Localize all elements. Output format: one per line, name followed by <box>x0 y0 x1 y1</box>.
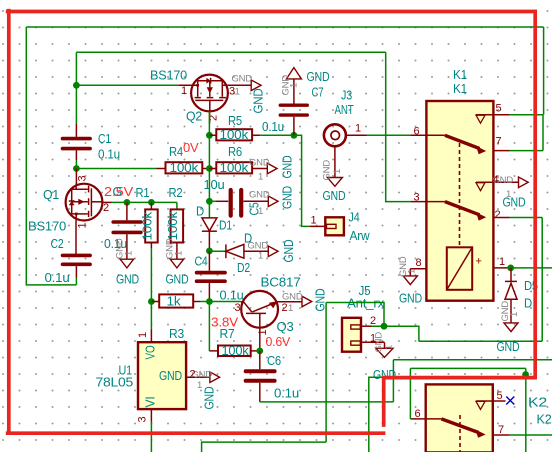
label Q1 pins <box>77 176 110 229</box>
label C7 <box>262 86 324 135</box>
svg-text:K2: K2 <box>537 413 552 427</box>
svg-text:2: 2 <box>495 209 501 221</box>
wire bottom center vertical <box>369 377 382 452</box>
label R2 <box>169 186 183 200</box>
svg-text:1: 1 <box>258 251 263 262</box>
K1 switch arm 1 <box>445 135 486 154</box>
svg-text:5: 5 <box>497 390 503 402</box>
power GND at C3 <box>115 238 140 286</box>
label J5 pins <box>370 315 376 345</box>
wire top net right vertical <box>543 27 545 115</box>
svg-text:GND: GND <box>503 196 526 210</box>
svg-text:R6: R6 <box>228 145 242 159</box>
label R7 <box>220 327 235 341</box>
svg-text:5: 5 <box>496 103 502 115</box>
svg-text:100k: 100k <box>222 344 250 358</box>
K1 pin 6 <box>410 126 445 138</box>
svg-text:GND: GND <box>232 74 253 85</box>
label C2 <box>45 237 70 285</box>
label J4 <box>311 211 371 244</box>
label C1 <box>98 132 120 162</box>
svg-text:Q2: Q2 <box>186 110 202 124</box>
connector J4 <box>310 217 344 235</box>
svg-text:1: 1 <box>174 251 185 256</box>
svg-text:GND: GND <box>322 160 333 181</box>
svg-text:1: 1 <box>355 123 361 135</box>
K1 pin 3 <box>410 192 445 204</box>
label 2.5V <box>104 185 134 199</box>
svg-text:GND: GND <box>159 369 182 383</box>
power GND at J5 pin1 <box>373 332 396 382</box>
svg-text:10u: 10u <box>204 178 225 192</box>
K2 pin 5 no-connect <box>476 390 514 409</box>
capacitor C1 <box>63 139 91 149</box>
svg-text:GND: GND <box>249 158 270 169</box>
wire K1 pin2 down <box>510 218 543 342</box>
svg-text:C7: C7 <box>312 86 324 100</box>
svg-text:C6: C6 <box>267 354 281 368</box>
svg-text:0.1u: 0.1u <box>274 387 299 401</box>
svg-text:3: 3 <box>77 176 89 182</box>
svg-text:1: 1 <box>407 269 418 274</box>
label D2 <box>237 232 252 276</box>
junction A <box>73 82 80 89</box>
svg-text:GND: GND <box>252 88 266 113</box>
U1 pin 2 GND <box>186 369 220 410</box>
svg-text:R1: R1 <box>136 186 150 200</box>
red border bottom <box>6 431 386 435</box>
power GND at J3 <box>322 146 346 203</box>
svg-text:BC817: BC817 <box>261 276 301 290</box>
K1 coil <box>447 247 482 289</box>
wire Q1 drain <box>112 202 177 209</box>
capacitor C5 <box>209 190 268 216</box>
junction M <box>507 265 514 272</box>
svg-text:BS170: BS170 <box>150 69 187 83</box>
label Q3 <box>261 276 301 335</box>
label R1 <box>136 186 150 200</box>
capacitor C6 <box>246 351 275 402</box>
svg-text:0.1u: 0.1u <box>262 120 284 134</box>
label GND bottom right <box>497 340 520 354</box>
svg-text:K1: K1 <box>453 82 467 96</box>
svg-text:J4: J4 <box>349 211 360 225</box>
transistor Q1 <box>66 169 112 256</box>
resistor R6 <box>209 161 267 175</box>
svg-text:6: 6 <box>415 408 421 420</box>
junction N <box>522 371 529 378</box>
wire Q2 gate <box>76 84 178 86</box>
wire K1 pin1 right <box>510 267 552 269</box>
resistor R5 <box>209 128 260 142</box>
wire K1 pin5-pin7 <box>510 115 543 151</box>
power GND at Q3 collector <box>282 292 312 315</box>
svg-text:8: 8 <box>416 257 422 269</box>
svg-text:1k: 1k <box>167 295 182 309</box>
capacitor C4 <box>197 251 225 301</box>
capacitor C3 <box>113 202 141 259</box>
label C6 <box>267 354 299 401</box>
junction L <box>381 323 388 330</box>
wire top long net <box>26 26 543 28</box>
svg-text:0.1u: 0.1u <box>220 289 244 303</box>
svg-text:0.1u: 0.1u <box>98 148 120 162</box>
svg-text:3: 3 <box>235 302 241 314</box>
svg-text:C1: C1 <box>98 132 111 146</box>
svg-text:GND: GND <box>399 292 422 306</box>
svg-text:1: 1 <box>288 303 293 314</box>
svg-text:1: 1 <box>137 332 149 338</box>
junction D <box>206 165 213 172</box>
label GND vertical right of D2 <box>282 239 296 262</box>
svg-text:R5: R5 <box>228 114 242 128</box>
label R3 <box>169 327 184 341</box>
power GND at R2 <box>165 238 189 286</box>
svg-text:R7: R7 <box>220 327 235 341</box>
svg-text:0V: 0V <box>183 141 199 155</box>
svg-text:2: 2 <box>282 302 288 314</box>
red notch vertical <box>382 376 386 427</box>
U1 pin 3 <box>137 409 152 422</box>
resistor R1 <box>141 202 158 248</box>
svg-text:Q1: Q1 <box>43 188 59 202</box>
junction H <box>148 199 155 206</box>
svg-text:R3: R3 <box>169 327 184 341</box>
wire node to U1 pin1 <box>150 302 152 330</box>
svg-text:100k: 100k <box>220 128 250 142</box>
wire R1 to node <box>150 248 152 302</box>
svg-text:GND: GND <box>282 292 303 303</box>
wire U1 pin3 down <box>150 422 152 452</box>
label Q2 <box>150 69 202 124</box>
wire J5 pin2 to K1 pin2 net <box>384 326 542 341</box>
IC U1 regulator <box>138 342 186 409</box>
junction C7 <box>291 132 298 139</box>
wire R5 to C7 <box>260 134 294 136</box>
wire node to Q3 base <box>200 301 241 303</box>
svg-text:GND: GND <box>166 273 189 287</box>
wire K2 pin6 net <box>410 368 525 419</box>
svg-text:GND: GND <box>497 340 520 354</box>
svg-text:D1: D1 <box>219 219 232 233</box>
K1 dashed link <box>459 143 461 247</box>
resistor R4 <box>157 161 210 175</box>
power GND at R6 <box>249 158 277 183</box>
svg-text:1: 1 <box>77 223 89 229</box>
svg-text:GND: GND <box>314 288 328 311</box>
junction I <box>148 298 155 305</box>
svg-text:ANT: ANT <box>335 103 354 117</box>
label 10u <box>204 178 225 192</box>
svg-text:GND: GND <box>307 70 330 84</box>
wire GND net to J5 pin2 <box>326 303 384 443</box>
svg-text:6: 6 <box>414 126 420 138</box>
resistor R7 <box>209 344 259 358</box>
wire C6 bottom <box>260 360 552 402</box>
svg-text:C4: C4 <box>195 255 208 269</box>
wire Q3 net down to R7 <box>208 302 210 351</box>
relay K2 <box>426 384 493 452</box>
svg-text:100k: 100k <box>170 161 200 175</box>
K2 switch arm <box>441 419 485 438</box>
svg-text:0.6V: 0.6V <box>266 335 291 349</box>
svg-text:VO: VO <box>144 345 158 359</box>
capacitor C7 <box>280 105 307 135</box>
connector J5 <box>342 318 385 352</box>
wire second horizontal y52 to K1 pin3 <box>76 52 410 201</box>
svg-text:K1: K1 <box>453 68 467 82</box>
svg-text:2: 2 <box>370 315 376 327</box>
svg-text:100k: 100k <box>141 211 155 241</box>
K2 pin 6 <box>410 408 441 420</box>
svg-text:Ant_rx: Ant_rx <box>347 297 385 311</box>
svg-text:GND: GND <box>249 190 270 201</box>
svg-text:R2: R2 <box>169 186 183 200</box>
wire C1 top <box>75 52 77 137</box>
power GND above C7 <box>281 68 330 104</box>
K1 switch arm 2 <box>445 202 486 221</box>
svg-text:GND: GND <box>281 155 295 178</box>
svg-text:2: 2 <box>103 202 109 214</box>
label R4 <box>169 145 183 159</box>
svg-text:100k: 100k <box>220 161 250 175</box>
svg-text:K2: K2 <box>528 396 547 410</box>
label 0V <box>183 141 199 155</box>
svg-text:7: 7 <box>496 136 502 148</box>
svg-text:1: 1 <box>311 215 317 227</box>
wire K2 pin7 right <box>510 434 552 436</box>
label J3 <box>335 89 362 135</box>
wire C7 to J4 <box>294 135 310 226</box>
diode D5 <box>505 268 517 323</box>
wire J3 to K1 pin6 <box>367 134 411 136</box>
svg-text:1: 1 <box>499 256 505 268</box>
svg-text:100k: 100k <box>166 211 180 241</box>
svg-text:R4: R4 <box>169 145 183 159</box>
capacitor C2 <box>63 255 91 277</box>
svg-text:GND: GND <box>323 189 346 203</box>
svg-text:1: 1 <box>384 345 395 350</box>
wire Q2 net vertical <box>208 135 210 201</box>
junction G <box>124 199 131 206</box>
svg-text:D: D <box>524 297 532 311</box>
resistor R3 1k <box>151 294 200 308</box>
svg-text:1: 1 <box>235 87 240 98</box>
svg-text:7: 7 <box>498 424 504 436</box>
red border left <box>7 9 11 435</box>
label R6 <box>228 145 242 159</box>
power GND at Q2 drain <box>232 74 266 114</box>
power GND at C5 <box>248 190 279 218</box>
K1 pin 7 <box>493 136 509 151</box>
wire C1 bottom to R4/Q1 <box>76 150 156 168</box>
label D1 <box>196 205 232 233</box>
label C4 <box>195 255 244 303</box>
K1 pin 8 GND <box>398 256 426 305</box>
diode D2 <box>209 244 268 258</box>
svg-text:2.5V: 2.5V <box>104 185 134 199</box>
svg-text:+: + <box>476 256 482 268</box>
svg-text:78L05: 78L05 <box>96 376 134 390</box>
red border top <box>6 10 537 14</box>
svg-text:1: 1 <box>509 312 520 317</box>
label R5 <box>228 114 242 128</box>
label 0.6V <box>266 335 291 349</box>
label Q3 pins <box>235 302 288 336</box>
label C3 value <box>104 237 127 251</box>
K2 pin 7 <box>493 424 510 436</box>
svg-text:Q3: Q3 <box>277 320 294 334</box>
transistor Q2 <box>178 75 251 124</box>
resistor R2 <box>166 209 183 259</box>
svg-text:GND: GND <box>281 186 295 209</box>
junction E <box>206 198 213 205</box>
red border right <box>533 10 537 380</box>
red notch horizontal <box>382 376 537 380</box>
svg-text:2: 2 <box>190 369 196 381</box>
svg-text:VI: VI <box>144 397 158 408</box>
U1 pin 1 <box>137 330 152 343</box>
power GND at D5 <box>500 301 520 332</box>
svg-text:Arw: Arw <box>350 229 371 243</box>
relay K1 <box>426 101 493 301</box>
K1 pin 2 <box>493 209 509 221</box>
K2 dashed link <box>459 415 461 452</box>
svg-text:GND: GND <box>282 239 296 262</box>
svg-text:0.1u: 0.1u <box>45 271 70 285</box>
label Q2 pins <box>181 85 235 121</box>
K1 pin 5 <box>476 103 510 124</box>
svg-text:1: 1 <box>181 85 187 97</box>
junction C <box>206 132 213 139</box>
svg-text:1: 1 <box>124 251 135 256</box>
K1 pin 4 GND <box>476 174 528 210</box>
diode D1 <box>202 201 217 251</box>
svg-text:GND: GND <box>116 273 139 287</box>
connector J3 ANT <box>324 124 367 146</box>
label D5 <box>524 279 538 311</box>
K1 pin 1 <box>493 256 509 268</box>
label K2 <box>528 396 552 427</box>
junction F <box>206 248 213 255</box>
power GND at D2 <box>248 241 279 262</box>
svg-text:C5: C5 <box>248 202 262 215</box>
svg-text:3: 3 <box>137 417 149 423</box>
svg-text:GND: GND <box>500 301 511 322</box>
wire Q2 source down <box>208 111 210 135</box>
label 3.8V <box>211 316 239 330</box>
svg-text:BS170: BS170 <box>28 220 66 234</box>
svg-text:GND: GND <box>203 386 217 409</box>
wire right bottom vertical <box>525 368 527 452</box>
label Q1 <box>28 188 66 234</box>
svg-text:1: 1 <box>197 380 202 391</box>
svg-text:4: 4 <box>493 174 499 186</box>
label GND vertical pair right <box>281 155 295 209</box>
label K1 <box>453 68 467 96</box>
svg-text:J3: J3 <box>341 89 352 103</box>
label GND vertical at Q3 right <box>314 288 328 311</box>
junction J <box>206 298 213 305</box>
label U1 <box>96 364 134 390</box>
svg-text:C2: C2 <box>51 237 64 251</box>
svg-text:D2: D2 <box>237 261 250 275</box>
junction B <box>73 165 80 172</box>
wire bottom left <box>202 442 327 452</box>
label J5 <box>347 284 385 311</box>
junction K <box>256 348 263 355</box>
svg-text:1: 1 <box>258 172 263 183</box>
svg-text:1: 1 <box>289 83 300 88</box>
transistor Q3 <box>241 291 302 351</box>
wire left vertical down to C2 <box>26 27 76 285</box>
svg-text:D: D <box>196 205 204 219</box>
svg-text:3: 3 <box>414 192 420 204</box>
svg-text:1: 1 <box>332 169 343 174</box>
wire hidden under red to K2 net <box>382 376 526 378</box>
